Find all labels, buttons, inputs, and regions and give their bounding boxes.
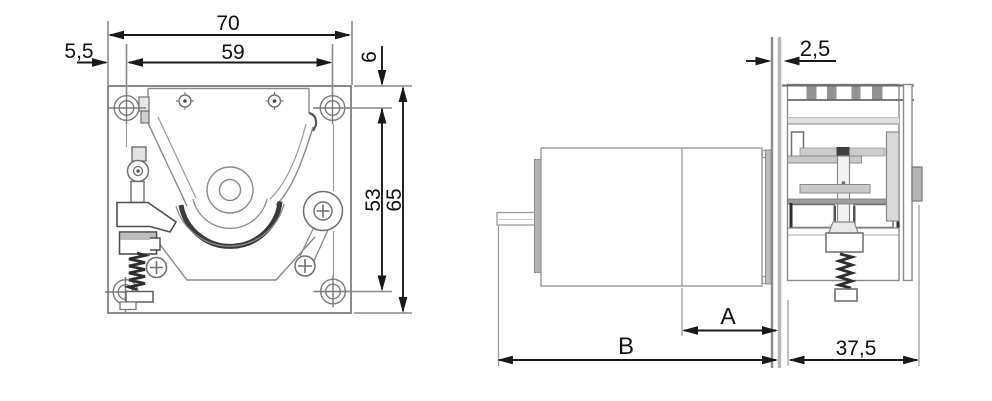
dim 53 line [381,109,383,289]
A dim line [684,330,776,332]
stem cap [837,147,850,156]
bracket bottom edge [155,237,315,280]
A arrows [682,326,698,335]
bracket top edge [148,88,309,90]
right tall block [887,132,900,221]
spring right view [839,254,852,288]
ext line plate top right [354,85,412,87]
lever rod [131,182,144,203]
belt right curve pair [276,127,313,205]
rail top line [782,85,914,87]
spring left [129,253,145,290]
lever lower block [120,232,157,254]
screw head right view [835,289,857,301]
ext line plate bottom right [354,312,412,314]
wall plate side [771,37,773,368]
lever pivot [128,161,149,182]
light band [788,118,899,124]
corner screw BL [105,277,146,312]
screw ticks top [176,92,284,110]
motor body [541,148,762,286]
bottom left screw on bracket [147,258,167,278]
left inner block [792,132,804,157]
6 arrow down tip plate top [378,70,387,86]
motor shaft [497,213,539,226]
arrowheads left view [92,31,407,313]
motor left cap [535,160,542,273]
output knob [912,167,922,201]
rail lines [788,99,915,101]
2,5 right tail [798,60,836,62]
ext line screw row bottom right [346,291,392,293]
gear unit body [788,85,900,281]
corner screw BR [314,276,353,308]
flange bar [766,150,772,284]
dim 65 line [402,88,404,311]
spring screw head [126,292,153,303]
foot flange [828,222,859,235]
B arrows [497,356,513,365]
2,5 arrows outside [756,57,772,66]
bracket left edge [147,89,149,124]
bracket left diagonal pair [148,123,187,206]
right wall [904,85,913,281]
37,5 left ext [787,300,789,366]
53 arrow up [378,108,387,124]
screw column centerline left [126,124,128,147]
2,5 left tail [746,60,756,62]
svg-text:B: B [618,333,634,360]
upper gray band [800,148,885,156]
hub inner circle [220,180,241,201]
B dim line [499,359,776,361]
dark block edges [790,203,793,228]
belt dark arc [181,202,280,247]
37,5 arrows [789,356,805,365]
ext line right top [351,21,353,85]
right lower block [854,205,893,228]
right roller [304,192,343,231]
svg-text:70: 70 [216,12,239,35]
5,5 arrow [92,58,108,67]
dim line 59 [129,62,330,64]
ext line col right [332,44,334,95]
dim line 70 [110,34,349,36]
ext line col left [126,44,128,95]
bracket right edge [308,89,310,114]
svg-text:5,5: 5,5 [64,40,93,63]
upper cross bar [788,156,862,163]
37,5 right ext [918,205,920,366]
mid band [800,185,870,194]
corner screw TR [313,92,352,124]
nut block [826,233,863,252]
lever stud [132,147,146,161]
59 arrows [127,58,143,67]
bracket notch top-left [139,97,149,111]
top rail teeth [807,86,817,100]
belt outer arc [176,204,284,246]
svg-text:59: 59 [221,41,244,64]
A ext line [681,288,683,336]
dark thin band [788,199,898,204]
screw column centerline right [333,124,335,276]
ext line screw row top right [344,107,392,109]
svg-text:53: 53 [362,188,385,211]
svg-text:37,5: 37,5 [836,337,877,360]
70 arrows [108,31,124,40]
hub outer circle [207,167,253,213]
bottom right screw [295,256,315,276]
top small screw left [179,95,191,107]
roller arm right [300,227,328,263]
37,5 dim line [791,359,918,361]
dim line 5,5 [77,62,106,64]
body cross line [788,227,900,229]
stem [838,156,850,222]
dim 6 upper tail [381,46,383,84]
B ext line [498,226,500,366]
ext line left top [107,21,109,85]
top small screw right [269,95,281,107]
flange tabs [763,151,773,158]
svg-text:65: 65 [383,188,406,211]
svg-text:A: A [720,303,736,329]
svg-text:2,5: 2,5 [800,36,831,61]
motor/gear split line [681,148,683,286]
left lower block [791,205,835,228]
mounting plate front [108,86,351,313]
corner screw TL [107,92,146,124]
saddle inner arc [193,199,267,228]
lever upper block [117,203,176,233]
65 arrow down [399,297,408,313]
65 arrow up [399,86,408,102]
bracket right hook [309,113,316,131]
53 arrow down [378,276,387,292]
svg-text:6: 6 [358,51,381,63]
